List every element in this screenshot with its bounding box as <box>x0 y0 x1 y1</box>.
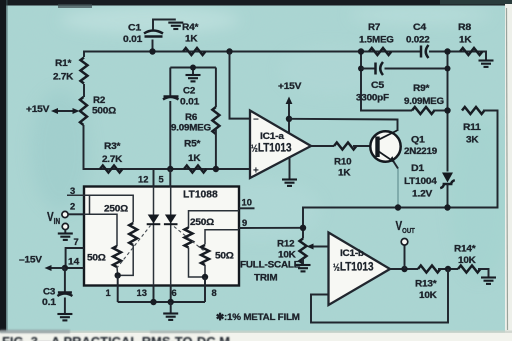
svg-text:FULL-SCALE: FULL-SCALE <box>240 260 301 271</box>
potentiometer R12 <box>300 239 307 264</box>
terminal VOUT <box>404 245 406 269</box>
svg-text:12: 12 <box>138 175 148 185</box>
svg-text:R13*: R13* <box>415 279 437 290</box>
wire: pin 5 drop <box>169 169 171 187</box>
node: R6 bottom junction <box>213 166 219 172</box>
capacitor C2 <box>169 68 171 96</box>
op-amp IC1-b <box>329 233 391 306</box>
svg-text:R5*: R5* <box>184 139 201 150</box>
capacitor C4 <box>420 46 423 58</box>
wire: C2/R6 top bar <box>170 67 216 69</box>
pin 10 stub <box>239 207 255 209</box>
svg-text:½LT1013: ½LT1013 <box>251 142 292 155</box>
svg-text:1.2V: 1.2V <box>412 189 433 200</box>
svg-text:9.09MEG: 9.09MEG <box>404 96 444 107</box>
wire: feedback left vertical <box>361 52 412 111</box>
wire: left bus down to bottom bus <box>84 125 250 169</box>
resistor R6 <box>215 68 217 108</box>
wire: +15V rail to Q1 collector <box>289 119 398 131</box>
svg-text:+: + <box>253 166 259 177</box>
scan frame: left border <box>0 0 6 332</box>
ground at C1/R4 <box>168 23 183 29</box>
wire: IC1-b feedback loop <box>311 269 448 323</box>
resistor R8 <box>460 48 482 55</box>
terminal VIN <box>62 211 68 217</box>
ground at C2/R6 top <box>192 68 194 75</box>
svg-text:C2: C2 <box>183 86 195 97</box>
svg-text:250Ω: 250Ω <box>104 204 128 215</box>
capacitor C5 <box>361 68 375 70</box>
transistor Q1 <box>370 131 400 161</box>
wire: bottom pin rail <box>118 301 205 303</box>
capacitor C1 <box>152 40 154 52</box>
potentiometer R2 <box>80 97 87 125</box>
wire: right vertical bus <box>447 52 449 172</box>
resistor R13 <box>418 266 440 273</box>
wire: bottom reference bus <box>303 208 448 239</box>
svg-text:C3: C3 <box>43 287 55 298</box>
scan frame: bottom caption band <box>0 333 512 341</box>
svg-text:13: 13 <box>137 288 147 298</box>
svg-text:0.1: 0.1 <box>42 297 57 308</box>
resistor R11 <box>462 107 484 114</box>
svg-text:R1*: R1* <box>55 58 72 69</box>
scan frame: top border <box>0 0 512 6</box>
ground at R8 <box>479 61 494 67</box>
scan frame: right paper edge <box>505 4 512 333</box>
node: C1 junction <box>149 48 155 54</box>
svg-text:D1: D1 <box>411 163 425 174</box>
svg-text:1K: 1K <box>188 153 201 164</box>
resistor R7 <box>369 48 391 55</box>
resistor R3 <box>100 166 122 173</box>
wire: pin 7 / pin 14 / -15V <box>66 248 84 268</box>
svg-text:Q1: Q1 <box>411 135 426 146</box>
svg-text:0.01: 0.01 <box>180 97 200 108</box>
pin 9 wire to R12 <box>239 227 303 229</box>
wire <box>83 84 85 97</box>
wire: pin 13 drop <box>153 285 155 302</box>
svg-text:IC1-a: IC1-a <box>260 131 285 142</box>
svg-text:R12: R12 <box>277 239 294 250</box>
node: right heater junction <box>202 274 208 280</box>
svg-text:500Ω: 500Ω <box>92 106 116 117</box>
svg-text:3: 3 <box>70 186 75 196</box>
svg-text:IC1-b: IC1-b <box>340 248 364 259</box>
svg-text:10: 10 <box>242 198 252 208</box>
svg-text:6: 6 <box>172 288 177 298</box>
wire: pin 12 drop <box>153 169 155 187</box>
svg-text:LT1004: LT1004 <box>404 176 437 187</box>
svg-text:1K: 1K <box>459 35 472 46</box>
svg-text:FIG. 3—A PRACTICAL RMS-TO-DC M: FIG. 3—A PRACTICAL RMS-TO-DC M <box>2 335 230 341</box>
svg-text:–15V: –15V <box>19 255 43 266</box>
LT1088 internal: right heater diode <box>170 187 172 285</box>
node: left heater junction <box>115 272 121 278</box>
svg-text:14: 14 <box>68 257 80 267</box>
resistor R9 <box>412 107 434 114</box>
ground below IC1-a <box>289 158 291 180</box>
wire: Q1 emitter to bottom bus (faint in scan) <box>397 169 399 208</box>
svg-text:R3*: R3* <box>104 141 121 152</box>
ground at VIN <box>58 234 73 240</box>
svg-text:R6: R6 <box>185 112 197 123</box>
wire: bus to IC1-a inverting input <box>230 52 251 119</box>
svg-text:+15V: +15V <box>278 81 302 92</box>
svg-text:3K: 3K <box>466 135 479 146</box>
wire: pin 1 drop <box>117 275 119 302</box>
svg-text:C1: C1 <box>128 23 142 34</box>
svg-text:50Ω: 50Ω <box>215 251 234 262</box>
svg-text:2.7K: 2.7K <box>102 154 122 165</box>
thermal coupling (dashed) right <box>174 227 204 251</box>
svg-text:R10: R10 <box>334 157 351 168</box>
terminal VIN return <box>62 223 68 229</box>
LT1088 internal: left 250ohm resistor <box>67 195 133 222</box>
thermal coupling (dashed) left <box>117 226 151 269</box>
svg-text:1: 1 <box>106 288 111 298</box>
svg-text:5: 5 <box>159 175 164 185</box>
svg-text:250Ω: 250Ω <box>190 217 214 228</box>
svg-text:C4: C4 <box>413 22 427 33</box>
svg-text:9: 9 <box>242 218 247 228</box>
op-amp IC1-a <box>250 111 311 179</box>
resistor R10 <box>311 145 334 147</box>
node: inverting branch junction <box>226 48 232 54</box>
svg-text:10K: 10K <box>419 290 437 301</box>
LT1088 module box <box>84 187 239 286</box>
svg-text:R4*: R4* <box>182 22 199 33</box>
svg-text:8: 8 <box>212 288 217 298</box>
diode D1 (LT1004) <box>442 173 453 183</box>
svg-text:50Ω: 50Ω <box>87 253 106 264</box>
resistor R1 <box>81 58 88 84</box>
svg-text:TRIM: TRIM <box>254 273 278 284</box>
svg-text:1.5MEG: 1.5MEG <box>359 35 394 46</box>
svg-text:R2: R2 <box>93 95 105 106</box>
resistor R4 <box>183 48 205 55</box>
svg-text:R7: R7 <box>368 22 380 33</box>
LT1088 internal: right 250ohm resistor <box>189 211 240 228</box>
svg-text:2N2219: 2N2219 <box>404 146 437 157</box>
svg-text:C5: C5 <box>371 80 385 91</box>
svg-text:7: 7 <box>74 237 79 247</box>
svg-text:3300pF: 3300pF <box>356 93 389 104</box>
svg-text:2.7K: 2.7K <box>53 72 73 83</box>
wire: IC1-b output <box>390 268 418 270</box>
LT1088 internal: left 50ohm resistor <box>68 195 89 214</box>
svg-text:½LT1013: ½LT1013 <box>333 261 374 274</box>
LT1088 internal: left heater diode <box>153 187 155 285</box>
node: C2 bottom junction <box>167 166 173 172</box>
svg-text:LT1088: LT1088 <box>183 190 218 201</box>
svg-text:10K: 10K <box>458 255 476 266</box>
svg-text:✱:1% METAL FILM: ✱:1% METAL FILM <box>216 312 300 323</box>
resistor R14 <box>458 266 480 273</box>
svg-text:R11: R11 <box>463 122 482 133</box>
svg-text:1K: 1K <box>338 168 351 179</box>
wire: main top bus <box>84 52 420 58</box>
svg-text:2: 2 <box>70 202 75 212</box>
wire: pin 8 drop <box>204 277 206 302</box>
ground at C3 <box>57 314 72 320</box>
svg-text:9.09MEG: 9.09MEG <box>171 123 211 134</box>
svg-text:+15V: +15V <box>26 104 50 115</box>
svg-text:R14*: R14* <box>454 244 476 255</box>
svg-text:R8: R8 <box>458 22 472 33</box>
svg-text:R9*: R9* <box>413 83 430 94</box>
wire: pin 6 drop <box>170 285 172 302</box>
ground at LT1088 pins <box>170 302 172 313</box>
svg-text:0.022: 0.022 <box>406 35 430 46</box>
capacitor C3 <box>64 268 66 292</box>
LT1088 internal: right 50ohm resistor <box>205 230 239 245</box>
resistor R5 <box>184 166 206 173</box>
svg-text:0.01: 0.01 <box>123 34 143 45</box>
svg-text:1K: 1K <box>185 34 198 45</box>
svg-text:−: − <box>253 115 259 126</box>
